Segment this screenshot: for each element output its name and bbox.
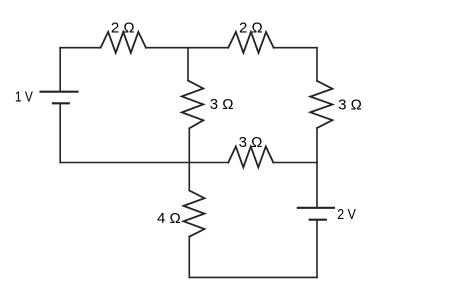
wire: left vertical upper (to 1V battery): [59, 48, 61, 92]
resistor R4 3 ohm (right vertical zigzag): [310, 81, 332, 128]
resistor R1 2 ohm (top-left, horizontal zigzag): [101, 32, 146, 53]
svg-text:3 Ω: 3 Ω: [210, 96, 234, 113]
svg-text:3 Ω: 3 Ω: [239, 134, 263, 151]
battery B2 2V short plate: [309, 219, 327, 221]
resistor R5 3 ohm (middle horizontal zigzag): [228, 147, 273, 168]
wire: top middle horizontal segment: [146, 47, 228, 49]
wire: middle horizontal right segment (R5 to right wire): [273, 162, 317, 164]
wire: top-left horizontal segment: [60, 47, 100, 49]
wire: left vertical lower (battery to bottom-left corner): [59, 103, 61, 162]
wire: top right horizontal segment: [274, 47, 317, 49]
wire: middle vertical between R3 and cross junction: [188, 128, 190, 162]
wire: right vertical below battery to bottom-right corner: [316, 220, 318, 278]
svg-text:2 Ω: 2 Ω: [111, 20, 135, 37]
wire: middle vertical upper (top node to R3): [187, 48, 189, 81]
wire: bottom horizontal segment: [189, 276, 317, 278]
svg-text:4 Ω: 4 Ω: [157, 210, 181, 227]
svg-text:3 Ω: 3 Ω: [338, 96, 362, 113]
svg-text:1 V: 1 V: [15, 88, 33, 105]
wire: middle vertical below R6 to bottom wire: [188, 237, 190, 278]
resistor R2 2 ohm (top-right, horizontal zigzag): [228, 32, 273, 53]
svg-text:2 V: 2 V: [337, 206, 356, 223]
wire: middle horizontal left segment (left corner through cross junction): [60, 162, 228, 164]
resistor R3 3 ohm (middle vertical zigzag): [182, 81, 204, 129]
resistor R6 4 ohm (lower vertical zigzag): [184, 191, 205, 237]
wire: middle vertical below cross junction to R6: [188, 163, 190, 191]
wire: right vertical from junction to 2V battery: [316, 163, 318, 208]
wire: right vertical upper (top-right corner to R4): [316, 48, 318, 81]
battery B1 1V short plate: [52, 102, 70, 104]
wire: right vertical between R4 and middle-wire junction: [316, 128, 318, 163]
battery B1 1V long plate: [40, 91, 79, 93]
svg-text:2 Ω: 2 Ω: [239, 20, 263, 37]
battery B2 2V long plate: [297, 207, 335, 209]
